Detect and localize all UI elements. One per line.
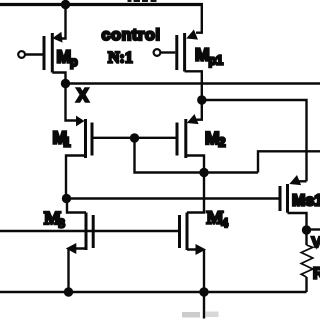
wire: step up and out to right edge: [258, 151, 320, 172]
node X: horizontal wire to right edge: [66, 82, 320, 84]
svg-text:V: V: [312, 234, 320, 251]
transistor M3: drain wire: [67, 199, 86, 213]
resistor R: top lead: [305, 230, 307, 245]
transistor Mp: drain lead wire: [52, 73, 65, 84]
wire: node to Ms1 gate: [67, 197, 281, 199]
node: gate junction dot of M1/M2: [130, 133, 139, 142]
transistor M2: gate bar: [176, 123, 179, 156]
node X: junction dot: [61, 79, 70, 88]
node: Mp1/M2 drain junction dot: [197, 95, 206, 104]
transistor M3: gate bar: [92, 215, 95, 248]
transistor Mp: gate bar: [43, 36, 46, 70]
node: M4 source on rail junction dot: [199, 287, 208, 296]
transistor M2: source wire down to node: [186, 156, 204, 173]
wire: Mp1 drain rail corner: [196, 5, 202, 33]
transistor Mp: source arrow: [52, 32, 63, 44]
transistor M1: gate lead wire: [92, 137, 176, 139]
transistor M4: source wire: [187, 250, 204, 293]
transistor Ms1: gate bar: [279, 186, 282, 211]
wire: stub below rail to cropped Vss label: [203, 292, 205, 319]
transistor Mp1: gate input circle: [154, 49, 161, 56]
transistor M2: channel bar: [184, 119, 187, 158]
transistor Mp1: gate bar: [175, 35, 178, 70]
transistor Ms1: drain arrow: [287, 175, 301, 189]
transistor M1: drain wire from node X: [66, 84, 78, 121]
svg-text:X: X: [77, 86, 89, 106]
node: M1 source / M3 drain junction dot: [62, 194, 71, 203]
svg-text:4: 4: [222, 215, 229, 230]
transistor M1: gate bar: [91, 123, 94, 156]
ground rail: [0, 291, 307, 293]
transistor Mp1: drain lead wire: [185, 71, 202, 100]
svg-text:2: 2: [219, 136, 226, 150]
transistor M2: drain wire from dot: [193, 100, 202, 120]
node: dot Mp source on Vdd rail: [61, 0, 70, 9]
svg-text:control: control: [102, 27, 161, 44]
transistor Mp: channel bar: [51, 33, 54, 73]
Vss label remnant (cropped, faint): [182, 312, 219, 318]
Vdd rail: [0, 3, 203, 6]
resistor R: bottom lead: [305, 277, 307, 292]
svg-text:R: R: [313, 266, 320, 283]
svg-text:M: M: [57, 47, 72, 67]
transistor M4: gate bar: [178, 215, 181, 248]
wire: M2 drain node to Ms1 drain (right vertical): [202, 100, 307, 181]
svg-text:Ms1: Ms1: [292, 193, 320, 210]
transistor M1: drain arrow: [76, 116, 85, 127]
wire: Mp source to Vdd rail: [58, 5, 66, 39]
Vdd label remnant (cropped text above rail): [128, 0, 157, 2]
resistor R: zigzag body: [301, 245, 313, 277]
wire: V sense node to right edge: [307, 228, 320, 230]
transistor M4: drain wire: [187, 173, 204, 213]
wire: gate node down and right to M2 source node: [135, 138, 259, 173]
svg-text:3: 3: [59, 216, 66, 231]
transistor M2: drain arrow: [185, 114, 199, 128]
transistor Ms1: drain wire with arrow: [298, 180, 307, 182]
node: Ms1 source / resistor junction dot: [302, 225, 311, 234]
svg-text:1: 1: [64, 136, 71, 150]
wire: gate line from left edge to M4 gate: [0, 230, 180, 232]
transistor M4: channel bar: [186, 213, 189, 251]
transistor Mp1: source arrow: [184, 29, 198, 43]
transistor Mp: gate lead wire: [25, 53, 42, 55]
transistor M1: channel bar: [84, 119, 87, 158]
transistor M3: source wire: [69, 249, 87, 293]
transistor Ms1: channel bar: [286, 184, 289, 213]
transistor Mp1: channel bar: [183, 33, 186, 72]
node: M3 source on rail junction dot: [64, 287, 73, 296]
svg-text:M: M: [205, 128, 220, 148]
svg-text:N:1: N:1: [108, 50, 133, 67]
transistor Mp1: gate lead wire: [161, 51, 176, 53]
transistor M4: source arrow: [196, 244, 207, 255]
svg-text:M: M: [195, 45, 210, 65]
transistor M1: source wire: [66, 156, 86, 199]
transistor M3: source arrow: [66, 243, 77, 254]
transistor M3: channel bar: [85, 213, 88, 251]
transistor Ms1: source wire: [288, 213, 307, 230]
svg-text:p: p: [70, 55, 78, 69]
node: M2 source junction dot: [199, 168, 208, 177]
svg-text:p1: p1: [209, 54, 224, 68]
transistor Mp: gate input circle: [18, 51, 25, 58]
